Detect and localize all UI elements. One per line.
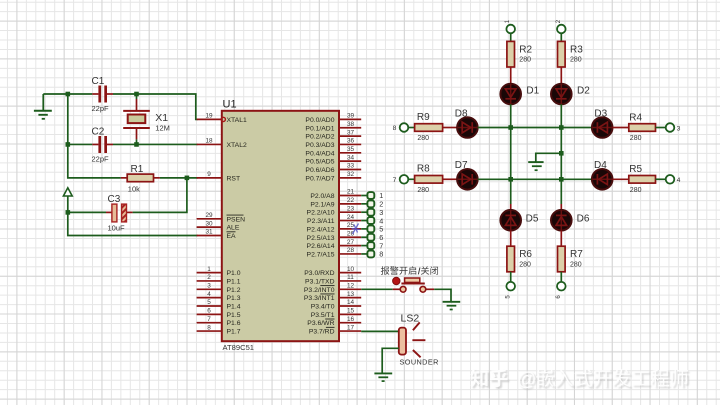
- wire: [68, 94, 121, 178]
- svg-text:C3: C3: [108, 194, 121, 205]
- wire: [510, 272, 512, 282]
- wire: [560, 33, 562, 41]
- svg-text:P2.5/A13: P2.5/A13: [307, 235, 335, 242]
- wire: [361, 330, 399, 332]
- svg-text:33: 33: [347, 163, 355, 170]
- wire: [536, 153, 562, 161]
- svg-text:38: 38: [347, 121, 355, 128]
- svg-text:36: 36: [347, 138, 355, 145]
- svg-text:25: 25: [347, 222, 355, 229]
- svg-text:280: 280: [570, 261, 582, 268]
- svg-text:D7: D7: [455, 160, 468, 171]
- svg-text:10k: 10k: [128, 184, 140, 193]
- svg-text:280: 280: [417, 187, 429, 194]
- svg-text:XTAL1: XTAL1: [227, 117, 247, 124]
- svg-text:22: 22: [347, 197, 355, 204]
- svg-text:P2.3/A11: P2.3/A11: [307, 218, 335, 225]
- LED D8: [455, 109, 478, 138]
- junction: [559, 151, 564, 156]
- LED D2: [551, 84, 590, 105]
- resistor R7: [558, 246, 584, 272]
- svg-text:5: 5: [207, 299, 211, 306]
- svg-text:37: 37: [347, 129, 355, 136]
- junction: [185, 176, 190, 181]
- svg-text:6: 6: [207, 308, 211, 315]
- svg-text:16: 16: [347, 316, 355, 323]
- svg-text:4: 4: [207, 291, 211, 298]
- junction: [66, 142, 71, 147]
- svg-text:R7: R7: [570, 249, 583, 260]
- svg-text:30: 30: [205, 220, 213, 227]
- svg-text:12M: 12M: [155, 124, 170, 133]
- wire: [560, 272, 562, 282]
- svg-text:@: @: [517, 369, 536, 390]
- svg-text:P3.7/RD: P3.7/RD: [309, 329, 335, 336]
- wire: [560, 104, 562, 179]
- wire: [408, 178, 414, 180]
- LED D4: [592, 160, 613, 190]
- svg-text:LS2: LS2: [401, 313, 420, 325]
- terminal 7: [393, 175, 409, 184]
- terminal 4: [666, 175, 681, 184]
- resistor R3: [558, 41, 584, 67]
- watermark 知乎 @嵌入式开发工程师: [470, 369, 688, 390]
- svg-text:8: 8: [207, 324, 211, 331]
- wire: [136, 94, 138, 99]
- svg-text:13: 13: [347, 291, 355, 298]
- svg-text:P0.0/AD0: P0.0/AD0: [305, 117, 334, 124]
- svg-text:D3: D3: [594, 109, 607, 120]
- wire: [361, 288, 393, 290]
- resistor R6: [507, 246, 533, 272]
- wire: [68, 212, 198, 235]
- terminal 6: [556, 282, 566, 299]
- terminal 8: [393, 123, 409, 132]
- svg-text:P3.5/T1: P3.5/T1: [311, 312, 335, 319]
- wire: [443, 178, 458, 180]
- wire: [560, 204, 562, 211]
- chip left pins (XTAL1 XTAL2 RST PSEN ALE EA P1.0-P1.7): [197, 113, 247, 124]
- wire: [560, 231, 562, 247]
- wire: [510, 231, 512, 247]
- LED D3: [592, 109, 613, 138]
- svg-text:P0.5/AD5: P0.5/AD5: [305, 159, 334, 166]
- svg-text:P3.0/RXD: P3.0/RXD: [304, 270, 334, 277]
- wire: [68, 143, 93, 145]
- svg-text:R4: R4: [629, 112, 642, 123]
- svg-text:EA: EA: [227, 233, 237, 240]
- svg-text:P2.1/A9: P2.1/A9: [310, 201, 334, 208]
- LED D7: [455, 160, 478, 190]
- svg-text:7: 7: [207, 316, 211, 323]
- svg-text:P2.6/A14: P2.6/A14: [307, 243, 335, 250]
- LED D1: [500, 84, 539, 105]
- capacitor C1: [92, 76, 114, 113]
- svg-text:11: 11: [347, 274, 354, 281]
- svg-text:32: 32: [347, 171, 355, 178]
- svg-text:P3.2/INT0: P3.2/INT0: [304, 287, 335, 294]
- svg-text:280: 280: [519, 261, 531, 268]
- svg-text:P3.4/T0: P3.4/T0: [311, 304, 335, 311]
- wire: [510, 204, 512, 211]
- wire: [510, 33, 512, 41]
- resistor R4: [629, 112, 656, 142]
- svg-text:39: 39: [347, 113, 355, 120]
- wire: [613, 127, 629, 129]
- chip right pins (P0 P2 P3): [305, 113, 361, 124]
- svg-text:31: 31: [205, 229, 213, 236]
- svg-text:P3.3/INT1: P3.3/INT1: [304, 295, 335, 302]
- wire: [113, 94, 198, 119]
- svg-text:R3: R3: [570, 45, 583, 56]
- svg-text:8: 8: [393, 125, 397, 132]
- sounder LS2: [399, 313, 439, 367]
- wire: [560, 179, 562, 204]
- capacitor C2: [92, 127, 114, 164]
- junction: [134, 92, 139, 97]
- svg-text:P0.6/AD6: P0.6/AD6: [305, 167, 334, 174]
- power +5V arrow: [63, 188, 72, 213]
- wire: [613, 178, 629, 180]
- resistor R8: [415, 164, 443, 194]
- svg-text:P3.1/TXD: P3.1/TXD: [305, 278, 335, 285]
- wire: [408, 127, 414, 129]
- svg-text:P2.7/A15: P2.7/A15: [307, 251, 335, 258]
- junction: [508, 177, 513, 182]
- junction: [66, 210, 71, 215]
- svg-text:10: 10: [347, 266, 355, 273]
- svg-text:12: 12: [347, 283, 355, 290]
- svg-text:U1: U1: [223, 99, 237, 111]
- mouse cursor artifact: [352, 224, 360, 235]
- svg-text:C1: C1: [92, 76, 105, 87]
- svg-text:R9: R9: [417, 112, 430, 123]
- svg-text:P0.1/AD1: P0.1/AD1: [305, 125, 334, 132]
- svg-text:28: 28: [347, 247, 355, 254]
- svg-text:D6: D6: [577, 214, 590, 225]
- ground (matrix center): [528, 162, 543, 170]
- svg-text:R1: R1: [131, 164, 144, 175]
- XTAL1 pin ring: [221, 117, 225, 121]
- wire: [68, 211, 106, 213]
- P2 output terminals 1-8: [361, 191, 383, 200]
- svg-text:P0.4/AD4: P0.4/AD4: [305, 150, 334, 157]
- svg-text:21: 21: [347, 189, 355, 196]
- terminal 3: [666, 123, 681, 132]
- svg-text:23: 23: [347, 205, 355, 212]
- resistor R2: [507, 41, 533, 67]
- svg-text:35: 35: [347, 146, 355, 153]
- svg-text:8: 8: [379, 250, 383, 259]
- watermark shadow: [472, 371, 690, 392]
- LED D6: [551, 210, 590, 231]
- svg-text:P1.0: P1.0: [227, 270, 241, 277]
- junction: [134, 142, 139, 147]
- svg-text:R5: R5: [629, 164, 642, 175]
- svg-text:P1.3: P1.3: [227, 295, 241, 302]
- svg-text:29: 29: [205, 212, 213, 219]
- svg-text:P3.6/WR: P3.6/WR: [307, 320, 334, 327]
- svg-text:280: 280: [519, 56, 531, 63]
- svg-text:XTAL2: XTAL2: [227, 142, 247, 149]
- wire: [478, 178, 592, 180]
- svg-text:X1: X1: [155, 112, 168, 124]
- terminal 2: [556, 19, 566, 33]
- svg-text:34: 34: [347, 154, 355, 161]
- wire: [434, 289, 451, 301]
- wire: [113, 143, 198, 145]
- wire: [382, 348, 399, 373]
- resistor R5: [629, 164, 656, 194]
- terminal 5: [505, 282, 515, 299]
- junction: [508, 125, 513, 130]
- svg-text:2: 2: [207, 274, 211, 281]
- svg-text:D1: D1: [526, 85, 539, 96]
- wire: [443, 127, 458, 129]
- svg-text:P1.7: P1.7: [227, 329, 241, 336]
- svg-text:C2: C2: [92, 127, 105, 138]
- svg-text:24: 24: [347, 214, 355, 221]
- svg-text:P1.5: P1.5: [227, 312, 241, 319]
- svg-text:7: 7: [393, 177, 397, 184]
- svg-text:D4: D4: [594, 160, 607, 171]
- svg-text:D2: D2: [577, 85, 590, 96]
- svg-text:4: 4: [677, 177, 681, 184]
- LED D5: [500, 210, 538, 231]
- svg-text:P0.7/AD7: P0.7/AD7: [305, 175, 334, 182]
- svg-text:22pF: 22pF: [92, 155, 110, 164]
- svg-text:17: 17: [347, 324, 355, 331]
- svg-text:P0.3/AD3: P0.3/AD3: [305, 142, 334, 149]
- svg-text:3: 3: [677, 125, 681, 132]
- svg-text:18: 18: [205, 138, 213, 145]
- svg-text:27: 27: [347, 239, 355, 246]
- svg-text:P1.6: P1.6: [227, 320, 241, 327]
- svg-text:19: 19: [205, 113, 213, 120]
- svg-text:AT89C51: AT89C51: [223, 343, 255, 352]
- op-amp U1 body (AT89C51 chip): [222, 111, 339, 341]
- svg-text:P1.1: P1.1: [227, 278, 241, 285]
- label 报警开启/关闭: [381, 266, 438, 275]
- svg-text:280: 280: [570, 56, 582, 63]
- svg-text:10uF: 10uF: [108, 224, 126, 233]
- svg-text:14: 14: [347, 299, 355, 306]
- svg-text:P1.4: P1.4: [227, 304, 241, 311]
- svg-text:P2.0/A8: P2.0/A8: [310, 193, 334, 200]
- ground (sounder): [374, 373, 392, 381]
- svg-text:P1.2: P1.2: [227, 287, 241, 294]
- resistor R1: [121, 164, 160, 194]
- capacitor C3: [106, 194, 133, 233]
- wire: [510, 67, 512, 84]
- svg-text:280: 280: [630, 187, 642, 194]
- wire: [133, 178, 187, 213]
- wire: [560, 67, 562, 84]
- svg-text:SOUNDER: SOUNDER: [400, 358, 439, 367]
- wire: [656, 178, 666, 180]
- wire: [510, 104, 512, 179]
- svg-text:ALE: ALE: [227, 225, 240, 232]
- svg-text:R2: R2: [519, 45, 532, 56]
- svg-text:1: 1: [207, 266, 211, 273]
- wire: [656, 127, 666, 129]
- svg-text:D8: D8: [455, 109, 468, 120]
- svg-text:P2.4/A12: P2.4/A12: [307, 226, 335, 233]
- svg-text:15: 15: [347, 308, 355, 315]
- svg-text:RST: RST: [227, 175, 241, 182]
- wire: [510, 179, 512, 204]
- svg-text:P2.2/A10: P2.2/A10: [307, 210, 335, 217]
- svg-text:R6: R6: [519, 249, 532, 260]
- crystal X1: [123, 99, 170, 139]
- svg-text:3: 3: [207, 283, 211, 290]
- svg-text:PSEN: PSEN: [227, 216, 246, 223]
- wire: [160, 177, 198, 179]
- svg-text:280: 280: [417, 135, 429, 142]
- wire: [478, 127, 592, 129]
- wire: [43, 93, 92, 95]
- junction: [559, 177, 564, 182]
- svg-text:D5: D5: [526, 214, 539, 225]
- svg-text:280: 280: [630, 135, 642, 142]
- svg-text:P0.2/AD2: P0.2/AD2: [305, 134, 334, 141]
- junction: [66, 92, 71, 97]
- junction: [559, 125, 564, 130]
- svg-text:R8: R8: [417, 164, 430, 175]
- svg-text:9: 9: [207, 171, 211, 178]
- svg-text:22pF: 22pF: [92, 104, 110, 113]
- resistor R9: [415, 112, 443, 142]
- wire: [136, 139, 138, 144]
- ground (button): [443, 302, 461, 310]
- terminal 1: [505, 19, 515, 33]
- ground (top left): [34, 94, 52, 119]
- push button (alarm switch): [393, 277, 435, 292]
